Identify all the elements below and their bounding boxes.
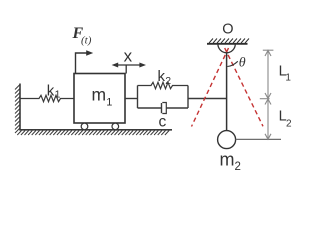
red swing line left	[192, 48, 229, 127]
damper c cylinder	[162, 103, 166, 114]
dimension bottom arrow down	[265, 134, 271, 139]
roller wheel right	[112, 123, 119, 130]
wall hatching	[15, 85, 20, 134]
angle theta arc	[227, 61, 237, 66]
svg-text:1: 1	[285, 73, 291, 84]
damper c piston	[161, 103, 163, 113]
dimension line vertical	[267, 50, 269, 139]
svg-text:2: 2	[165, 75, 171, 87]
dimension middle tick	[260, 98, 270, 100]
ceiling hatching	[209, 39, 249, 44]
pendulum bob m2	[218, 131, 236, 149]
ceiling	[207, 43, 248, 45]
reference line at bob level	[236, 138, 281, 140]
wire m1 to parallel combo	[125, 98, 138, 100]
spring k2	[138, 82, 189, 88]
svg-text:O: O	[222, 22, 233, 38]
dimension middle arrow up	[265, 99, 271, 105]
floor hatching	[17, 131, 169, 136]
svg-text:x: x	[124, 47, 133, 66]
svg-text:k: k	[158, 68, 166, 85]
tick of x arrow	[125, 65, 127, 74]
svg-text:θ: θ	[239, 56, 246, 71]
force arrow F(t)	[76, 53, 88, 73]
svg-text:(t): (t)	[81, 35, 92, 47]
roller wheel left	[81, 123, 88, 130]
svg-text:1: 1	[55, 88, 61, 100]
pendulum rod	[226, 52, 228, 131]
pivot O bearing	[218, 44, 235, 53]
svg-text:2: 2	[286, 119, 292, 130]
floor	[20, 129, 173, 131]
parallel combo right bar	[187, 86, 189, 109]
red swing line right	[225, 48, 263, 126]
spring k1	[20, 95, 74, 101]
damper branch wire left	[138, 107, 162, 109]
svg-text:k: k	[47, 83, 55, 100]
dimension middle arrow down	[265, 93, 271, 99]
wire combo to pendulum rod	[188, 98, 227, 100]
damper branch wire right	[166, 107, 188, 109]
displacement arrow x	[114, 64, 144, 66]
svg-text:m: m	[220, 150, 235, 170]
svg-text:c: c	[159, 114, 167, 131]
wall	[19, 84, 21, 131]
svg-text:2: 2	[235, 161, 241, 173]
dimension top tick	[263, 49, 274, 51]
parallel combo left bar	[137, 86, 139, 109]
svg-text:1: 1	[106, 97, 112, 109]
mass m1 box	[74, 74, 125, 124]
dimension top arrow up	[265, 50, 271, 56]
svg-text:m: m	[92, 85, 107, 105]
